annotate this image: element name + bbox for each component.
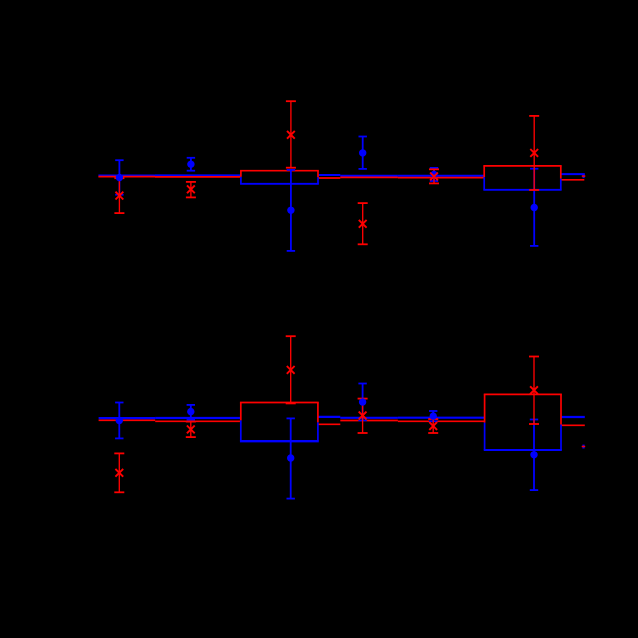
bottom panel blue model line, bin 5	[398, 417, 485, 419]
top panel bin box 2	[483, 166, 561, 190]
top panel bin box 1	[240, 171, 319, 184]
bottom panel red marker 3	[287, 366, 295, 374]
top panel red marker 5	[430, 173, 438, 181]
top panel blue model line, bin 5	[398, 175, 484, 177]
bottom panel blue model line, bin 4	[340, 417, 398, 419]
bottom panel red error bar 5	[428, 419, 438, 433]
bottom panel blue marker 2	[187, 408, 194, 415]
bottom panel blue marker 4	[359, 398, 366, 405]
bottom panel red marker 5	[429, 422, 437, 430]
top panel blue error bar 5	[430, 168, 438, 181]
top panel red marker 1	[116, 192, 124, 200]
top panel blue marker 4	[359, 149, 366, 156]
bottom panel red error bar 3	[286, 336, 296, 403]
top panel red model line, bin 2	[155, 176, 241, 178]
bottom panel blue error bar 5	[429, 411, 437, 421]
top panel blue error bar 6	[530, 169, 538, 246]
bottom panel blue error bar 4	[358, 384, 366, 421]
bottom panel blue marker 6	[530, 451, 537, 458]
top panel blue error bar 4	[359, 137, 367, 169]
top panel red error bar 2	[186, 182, 196, 198]
bottom panel red marker 4	[359, 412, 367, 420]
bottom panel red error bar 4	[358, 399, 368, 433]
bottom panel blue error bar 1	[115, 403, 123, 439]
top panel blue marker 5	[430, 171, 437, 178]
bottom panel red model line, bin 6 (after box 2)	[561, 424, 585, 426]
bottom panel tiny end marker	[582, 445, 586, 449]
top panel blue model line, bin 1	[98, 174, 155, 176]
bottom panel blue model line, bin 2	[155, 417, 241, 419]
bottom panel red marker 2	[187, 426, 195, 434]
bottom panel red error bar 2	[186, 422, 196, 438]
bottom panel blue marker 1	[116, 417, 123, 424]
top panel red marker 2	[187, 185, 195, 193]
bottom panel red model line, bin 2	[155, 420, 241, 422]
bottom panel blue error bar 2	[187, 405, 195, 420]
bottom panel blue marker 5	[430, 412, 437, 419]
top panel red model line, bin 3 (after box 1)	[318, 177, 340, 179]
top panel tiny end marker	[582, 174, 586, 178]
top panel red error bar 3	[286, 101, 296, 168]
bottom panel bin box 2	[484, 394, 562, 450]
top panel red error bar 4	[358, 203, 368, 244]
bottom panel red marker 1	[115, 469, 123, 477]
top panel red model line, bin 5	[398, 177, 484, 179]
bottom panel blue model line, bin 3 (after box 1)	[318, 416, 340, 418]
top panel blue model line, bin 2	[155, 174, 241, 176]
top panel blue model line, bin 3 (after box 1)	[318, 174, 340, 176]
top panel blue model line, bin 4	[340, 175, 398, 177]
bottom panel red marker 6	[530, 386, 538, 394]
top panel blue marker 3	[287, 207, 294, 214]
bottom panel red model line, bin 3 (after box 1)	[318, 423, 340, 425]
bottom panel blue model line, bin 1	[99, 417, 156, 419]
top panel blue marker 1	[116, 174, 123, 181]
top panel blue error bar 2	[187, 158, 195, 171]
top panel red error bar 6	[529, 116, 539, 190]
bottom panel blue marker 3	[287, 454, 294, 461]
bottom panel bin box 1	[240, 403, 319, 442]
top panel red marker 4	[359, 220, 367, 228]
bottom panel red error bar 6	[529, 357, 539, 425]
top panel red error bar 1	[114, 178, 124, 213]
top panel red error bar 5	[429, 169, 439, 183]
bottom panel blue model line, bin 6 (after box 2)	[561, 416, 585, 418]
bottom panel red model line, bin 5	[398, 420, 485, 422]
bottom panel red model line, bin 4	[340, 420, 398, 422]
top panel red model line, bin 4	[340, 176, 398, 178]
top panel red marker 3	[287, 131, 295, 139]
bottom panel red error bar 1	[114, 453, 124, 492]
top panel red model line, bin 6 (after box 2)	[561, 179, 585, 181]
top panel red model line, bin 1	[98, 176, 155, 178]
top panel blue error bar 1	[115, 160, 123, 195]
bottom panel blue error bar 6	[530, 420, 538, 491]
top panel blue error bar 3	[287, 170, 295, 251]
top panel blue marker 6	[531, 204, 538, 211]
top panel blue model line, bin 6 (after box 2)	[561, 173, 585, 175]
top panel red marker 6	[530, 149, 538, 157]
bottom panel red model line, bin 1	[99, 419, 156, 421]
bottom panel blue error bar 3	[287, 418, 295, 498]
top panel blue marker 2	[187, 161, 194, 168]
